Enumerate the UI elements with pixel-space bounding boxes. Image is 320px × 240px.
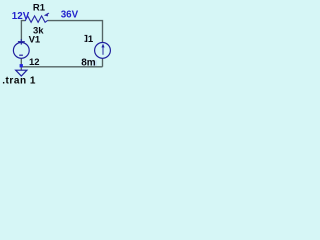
svg-text:8m: 8m xyxy=(81,58,96,69)
V1 minus sign xyxy=(19,54,23,56)
ground symbol xyxy=(16,70,27,76)
svg-text:V1: V1 xyxy=(29,35,41,46)
faint selection artifact patch xyxy=(92,60,97,65)
background xyxy=(0,0,120,90)
wire: V1 bottom lead xyxy=(20,58,22,67)
current source I1 circle xyxy=(95,43,111,59)
wire: top rail left segment (V1 top to R1 left) xyxy=(21,21,25,41)
svg-text:36V: 36V xyxy=(61,10,79,21)
wire: top rail right segment (R1 right to I1 top) xyxy=(48,21,103,42)
svg-text:R1: R1 xyxy=(33,2,46,13)
svg-text:12: 12 xyxy=(29,57,40,68)
I1 arrow (pointing up) xyxy=(102,44,105,55)
wire: ground stem xyxy=(20,67,22,70)
voltage source V1 circle xyxy=(13,43,29,59)
wire: bottom rail xyxy=(21,66,102,68)
svg-text:12V: 12V xyxy=(12,11,30,22)
svg-text:.tran 1: .tran 1 xyxy=(2,76,36,87)
V1 plus sign xyxy=(18,39,25,44)
wire: I1 bottom lead xyxy=(102,58,104,66)
current direction arrow on R1 xyxy=(44,13,49,16)
junction dot (node) xyxy=(20,64,23,67)
resistor R1 zigzag xyxy=(25,16,48,22)
serifs on I of I1 xyxy=(85,35,88,41)
